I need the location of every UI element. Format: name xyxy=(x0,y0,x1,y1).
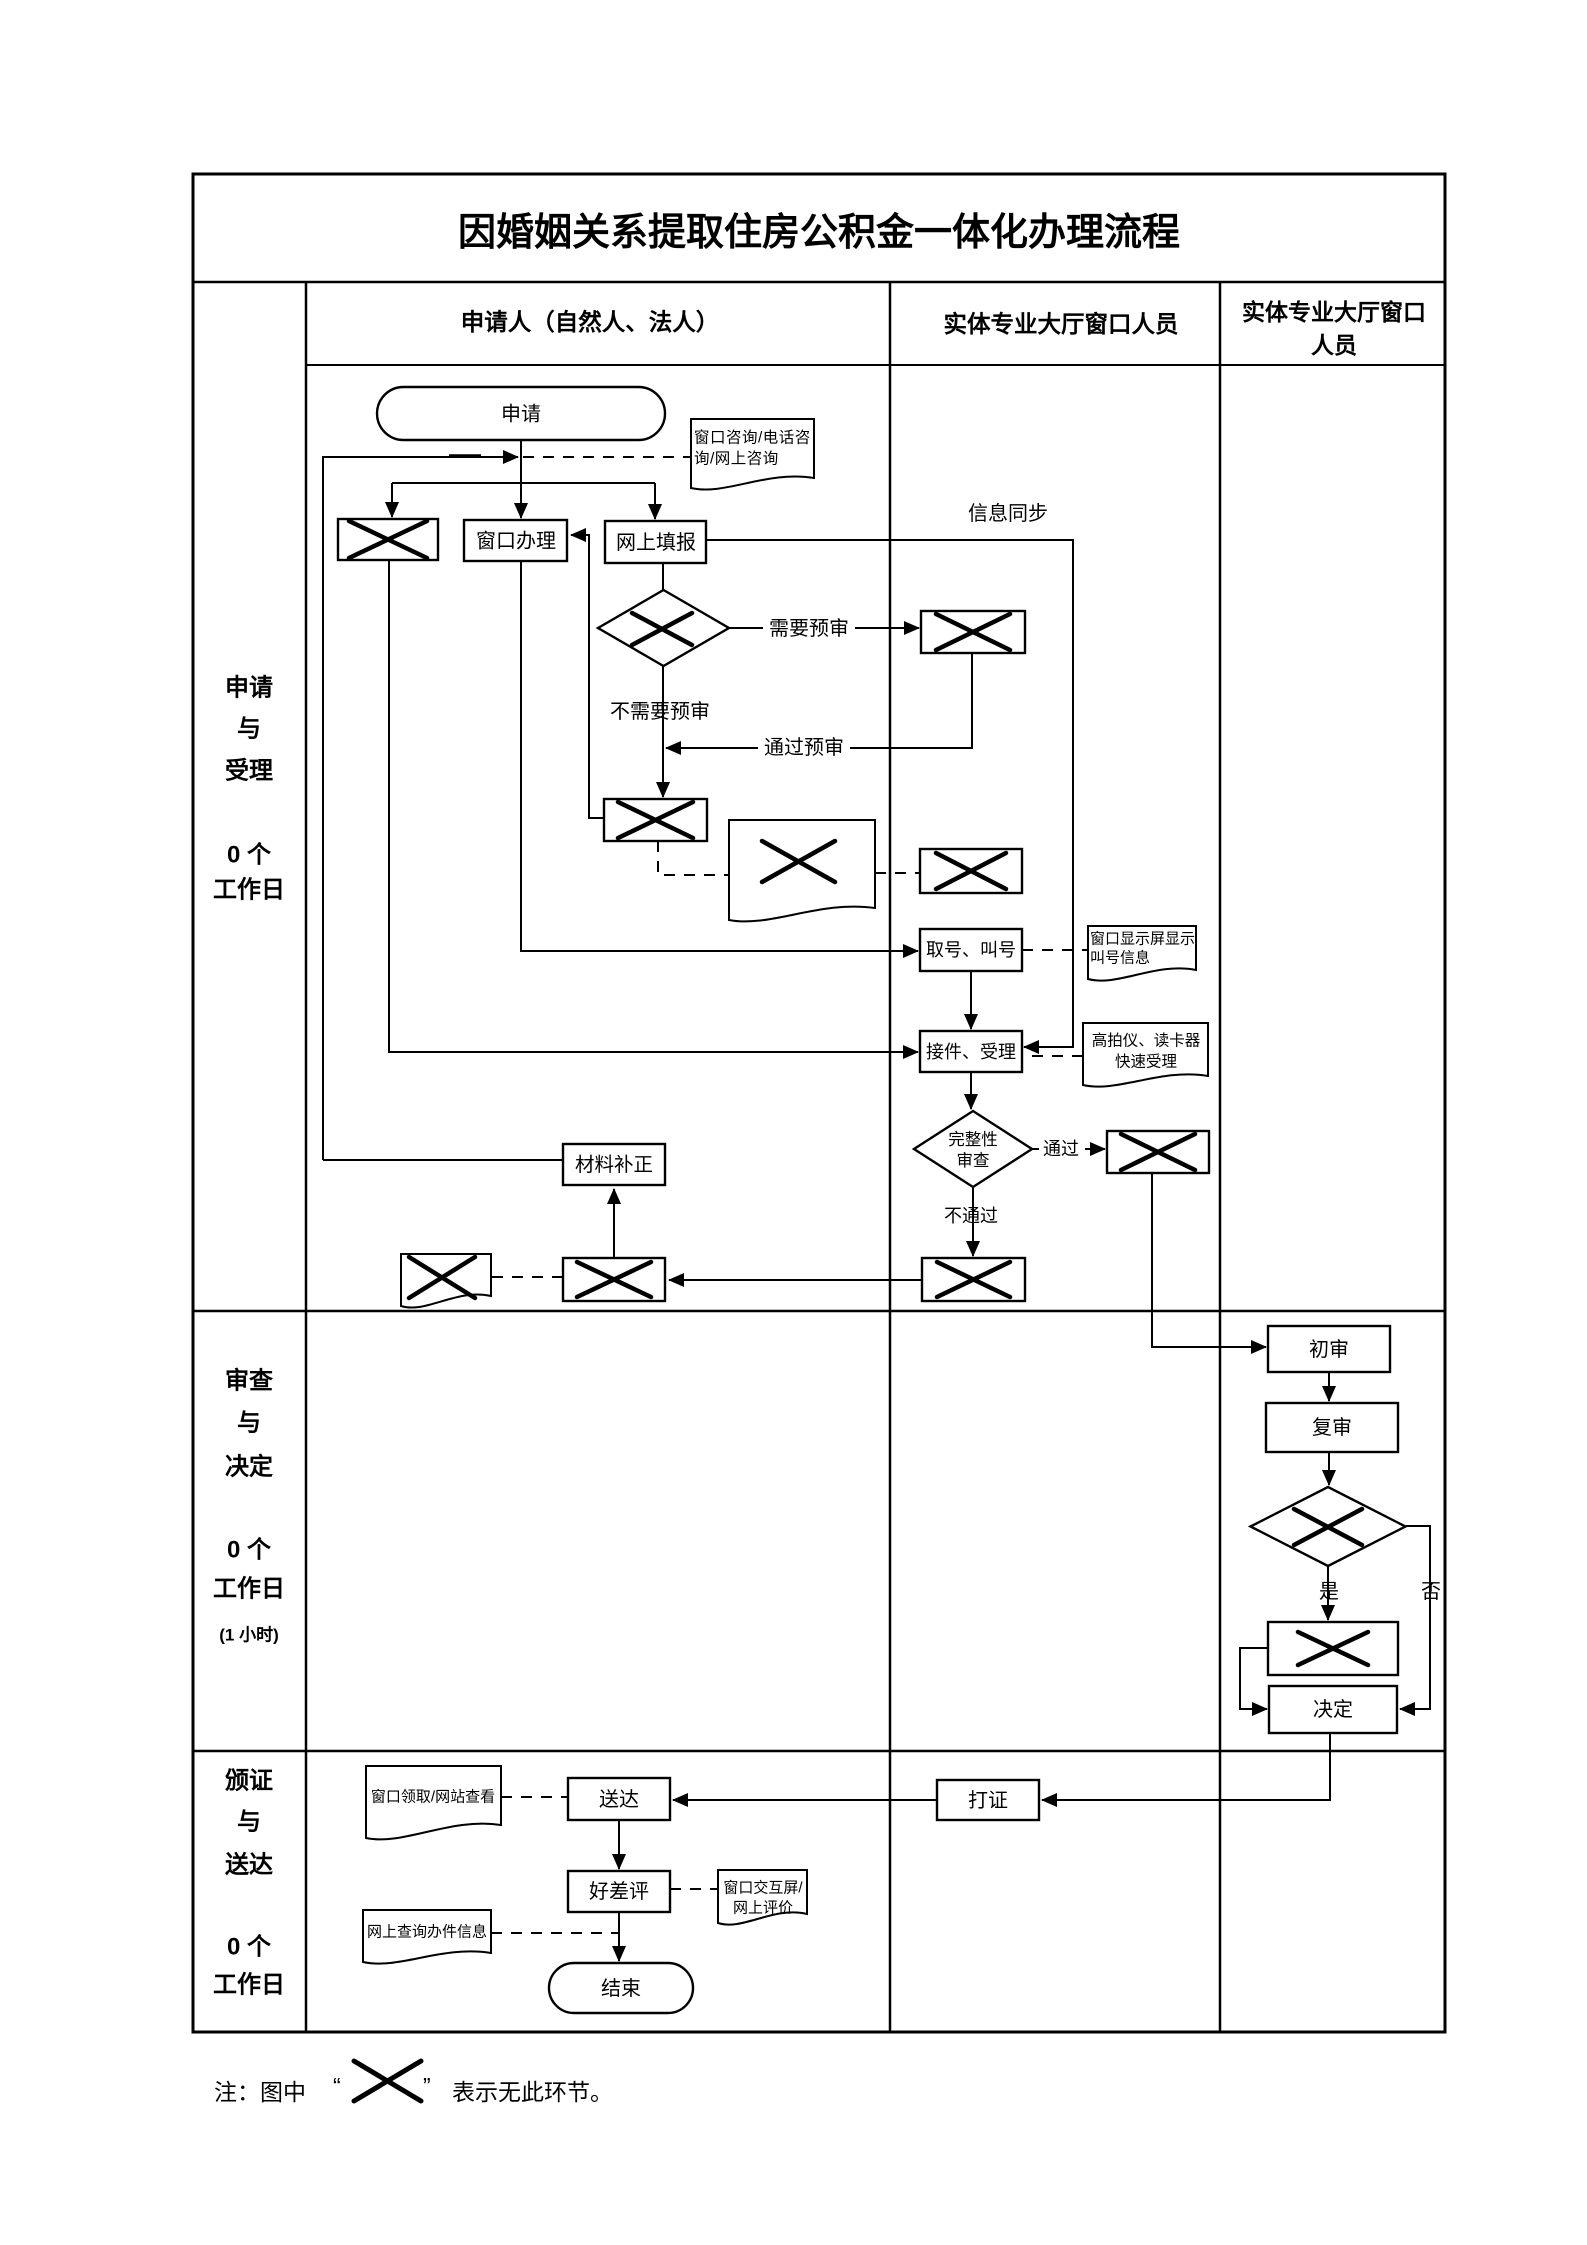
start node: application xyxy=(377,387,665,440)
wire: online filling down to pre-review decision xyxy=(662,563,664,592)
svg-text:工作日: 工作日 xyxy=(213,877,285,904)
phase 2 label: review and decide xyxy=(213,1367,285,1603)
process box: good/bad rating xyxy=(568,1871,670,1912)
svg-text:实体专业大厅窗口: 实体专业大厅窗口 xyxy=(1242,299,1426,325)
document: window display shows number info xyxy=(1088,926,1196,981)
wire: up into material correction xyxy=(613,1189,615,1258)
svg-text:表示无此环节。: 表示无此环节。 xyxy=(452,2079,613,2105)
svg-text:因婚姻关系提取住房公积金一体化办理流程: 因婚姻关系提取住房公积金一体化办理流程 xyxy=(458,211,1180,254)
decision diamond: completeness check xyxy=(914,1111,1032,1187)
wire: diamond down to no-step box xyxy=(662,666,664,797)
svg-text:与: 与 xyxy=(237,1410,261,1437)
dashed wire: take-number to display document xyxy=(1022,949,1087,951)
wire: pre-review box down and left (passed pre-review) xyxy=(666,653,972,748)
svg-text:决定: 决定 xyxy=(225,1453,273,1481)
no-step box lane2 (after pass) xyxy=(1107,1131,1209,1173)
lane header bottom line xyxy=(306,364,1445,366)
wire: yes branch down to no-step box xyxy=(1327,1566,1329,1620)
svg-text:窗口交互屏/: 窗口交互屏/ xyxy=(723,1879,803,1897)
wire: deliver down to rating xyxy=(618,1820,620,1869)
table outer border xyxy=(193,174,1445,2032)
svg-text:注：图中: 注：图中 xyxy=(214,2079,306,2105)
decision diamond with X (pre-review needed?) xyxy=(598,590,729,666)
svg-text:工作日: 工作日 xyxy=(213,1972,285,1999)
wire: application down to split bar xyxy=(520,440,522,483)
svg-text:取号、叫号: 取号、叫号 xyxy=(926,940,1016,960)
process box: take number / call number xyxy=(920,929,1022,971)
document with X (lane 1) xyxy=(729,820,875,921)
svg-text:决定: 决定 xyxy=(1313,1698,1353,1721)
svg-text:”: ” xyxy=(423,2073,431,2099)
wire: info sync from online filling to receive/accept xyxy=(706,540,1073,1047)
vertical line: lane 2 / lane 3 xyxy=(1219,282,1222,2032)
svg-text:工作日: 工作日 xyxy=(213,1576,285,1603)
document: window interactive screen / online rating xyxy=(718,1870,807,1925)
svg-text:材料补正: 材料补正 xyxy=(575,1154,653,1176)
svg-text:0 个: 0 个 xyxy=(227,842,272,869)
wire: no-step top-left down then right to receive/accept xyxy=(389,560,918,1052)
svg-text:接件、受理: 接件、受理 xyxy=(926,1042,1016,1062)
svg-text:通过预审: 通过预审 xyxy=(764,736,844,759)
vertical line: lane 1 / lane 2 xyxy=(889,282,892,2032)
svg-text:通过: 通过 xyxy=(1043,1139,1079,1159)
svg-text:(1 小时): (1 小时) xyxy=(219,1626,279,1645)
svg-text:0 个: 0 个 xyxy=(227,1934,272,1961)
svg-text:叫号信息: 叫号信息 xyxy=(1090,950,1150,967)
svg-text:送达: 送达 xyxy=(225,1851,273,1879)
svg-text:与: 与 xyxy=(237,716,261,743)
no-step box lane2 (sync) xyxy=(920,849,1022,893)
svg-text:结束: 结束 xyxy=(601,1977,641,2000)
title row bottom line xyxy=(193,281,1445,284)
process box: second review xyxy=(1266,1403,1398,1452)
phase 1 label: apply and accept xyxy=(213,675,285,904)
wire: split bar down to no-step box xyxy=(391,483,393,517)
svg-text:窗口办理: 窗口办理 xyxy=(476,530,556,553)
document: online query of case info xyxy=(363,1910,491,1964)
wire: print certificate to deliver xyxy=(673,1799,937,1801)
dashed wire: rating to interactive screen document xyxy=(670,1888,718,1890)
no-step box lane2 (not pass) xyxy=(922,1258,1025,1301)
svg-text:与: 与 xyxy=(237,1809,261,1836)
process box: online filling xyxy=(605,521,706,563)
wire: pass no-step box down then right into first review xyxy=(1152,1173,1266,1347)
svg-text:窗口咨询/电话咨: 窗口咨询/电话咨 xyxy=(694,429,811,447)
svg-text:询/网上咨询: 询/网上咨询 xyxy=(694,450,779,468)
wire: split bar down to online filling xyxy=(654,483,656,519)
svg-text:高拍仪、读卡器: 高拍仪、读卡器 xyxy=(1092,1032,1201,1050)
no-step box lane3 xyxy=(1268,1622,1398,1675)
wire: no-step box left then up into window handling xyxy=(571,535,604,818)
svg-text:0 个: 0 个 xyxy=(227,1537,272,1564)
no-step box mid lane1 xyxy=(604,799,707,841)
wire+label: pass to no-step box xyxy=(1031,1148,1105,1150)
wire: rating down to end xyxy=(618,1912,620,1961)
wire: window handling down then right to take number xyxy=(521,561,918,951)
svg-text:网上填报: 网上填报 xyxy=(616,531,696,554)
decision diamond with X (lane 3) xyxy=(1251,1487,1406,1566)
dashed wire: X document to lane2 no-step box xyxy=(875,872,920,874)
svg-text:审查: 审查 xyxy=(957,1151,990,1170)
svg-text:快速受理: 快速受理 xyxy=(1115,1053,1177,1071)
svg-text:网上评价: 网上评价 xyxy=(733,1900,793,1917)
wire: no branch right side down into decision box xyxy=(1400,1526,1430,1709)
wire: split bar down to window handling xyxy=(520,483,522,518)
wire: decision down then left into print certificate xyxy=(1042,1733,1330,1800)
document: window/phone/online consult xyxy=(691,419,814,490)
process box: window handling xyxy=(464,520,567,561)
svg-text:需要预审: 需要预审 xyxy=(769,617,849,640)
svg-text:申请: 申请 xyxy=(501,403,541,426)
wire: not-pass box left to lane1 no-step box xyxy=(669,1279,922,1281)
wire: completeness check down to no-step box xyxy=(972,1187,974,1256)
dashed wire: lane1 no-step box to X document xyxy=(491,1276,563,1278)
end node xyxy=(549,1963,693,2013)
svg-text:审查: 审查 xyxy=(225,1367,273,1395)
dashed wire: query document to flow line xyxy=(491,1932,618,1934)
wire: short thick segment on junction arrow xyxy=(449,454,481,458)
no-step box lane1 (material correction feed) xyxy=(563,1258,665,1301)
process box: deliver xyxy=(568,1778,670,1820)
svg-text:复审: 复审 xyxy=(1312,1416,1352,1439)
svg-text:网上查询办件信息: 网上查询办件信息 xyxy=(367,1924,487,1941)
process box: receive and accept xyxy=(920,1031,1022,1072)
svg-text:不需要预审: 不需要预审 xyxy=(610,700,710,723)
dashed wire: scanner document to receive/accept xyxy=(1026,1055,1083,1057)
wire: receive/accept down to completeness check xyxy=(970,1072,972,1109)
document: window pickup / website view xyxy=(366,1766,501,1839)
svg-text:人员: 人员 xyxy=(1311,332,1357,358)
svg-text:打证: 打证 xyxy=(968,1789,1008,1812)
label: yes xyxy=(1317,1580,1341,1604)
dashed wire: no-step box to X document xyxy=(658,841,729,875)
footnote X symbol xyxy=(354,2061,421,2101)
no-step box top-left xyxy=(338,519,438,560)
svg-text:好差评: 好差评 xyxy=(589,1880,649,1903)
row separator: review/decide vs issue/deliver xyxy=(193,1750,1445,1753)
label: no pre-review needed xyxy=(607,700,713,724)
row separator: apply/accept vs review/decide xyxy=(193,1310,1445,1313)
svg-text:送达: 送达 xyxy=(599,1788,639,1811)
svg-text:不通过: 不通过 xyxy=(944,1206,998,1226)
svg-text:实体专业大厅窗口人员: 实体专业大厅窗口人员 xyxy=(944,310,1179,337)
wire: take number down to receive/accept xyxy=(970,971,972,1029)
svg-text:窗口显示屏显示: 窗口显示屏显示 xyxy=(1090,930,1195,948)
wire: second review to decision diamond xyxy=(1328,1452,1330,1485)
wire: first review to second review xyxy=(1328,1372,1330,1401)
document: high-speed scanner, card reader quick accept xyxy=(1083,1023,1208,1087)
svg-text:颁证: 颁证 xyxy=(225,1768,273,1795)
wire: loop-back arrow into junction xyxy=(323,457,518,1160)
label: no xyxy=(1419,1580,1443,1604)
phase 3 label: issue and deliver xyxy=(213,1768,285,1999)
dashed wire: pickup document to deliver xyxy=(501,1796,568,1798)
vertical line: phase column / lane 1 xyxy=(305,282,308,2032)
document with X (small, lane1) xyxy=(401,1254,491,1308)
process box: decision xyxy=(1269,1686,1397,1733)
wire+label: need pre-review to lane2 no-step box xyxy=(729,627,919,629)
svg-text:完整性: 完整性 xyxy=(948,1130,998,1149)
svg-text:窗口领取/网站查看: 窗口领取/网站查看 xyxy=(371,1788,495,1806)
process box: first review xyxy=(1268,1326,1390,1372)
no-step box lane2 (pre-review) xyxy=(921,611,1025,653)
svg-text:初审: 初审 xyxy=(1309,1338,1349,1361)
wire: no-step box left loop into decision box xyxy=(1240,1648,1268,1709)
wire: split bar xyxy=(392,482,655,484)
wire: material correction left to loop line xyxy=(323,1159,563,1161)
svg-text:“: “ xyxy=(333,2073,341,2099)
svg-text:受理: 受理 xyxy=(225,757,273,785)
process box: material correction xyxy=(563,1144,665,1185)
svg-text:申请人（自然人、法人）: 申请人（自然人、法人） xyxy=(461,308,720,335)
svg-text:申请: 申请 xyxy=(225,675,273,702)
svg-text:信息同步: 信息同步 xyxy=(968,502,1048,525)
dashed wire: junction to consult document xyxy=(523,456,691,458)
process box: print certificate xyxy=(937,1780,1039,1820)
